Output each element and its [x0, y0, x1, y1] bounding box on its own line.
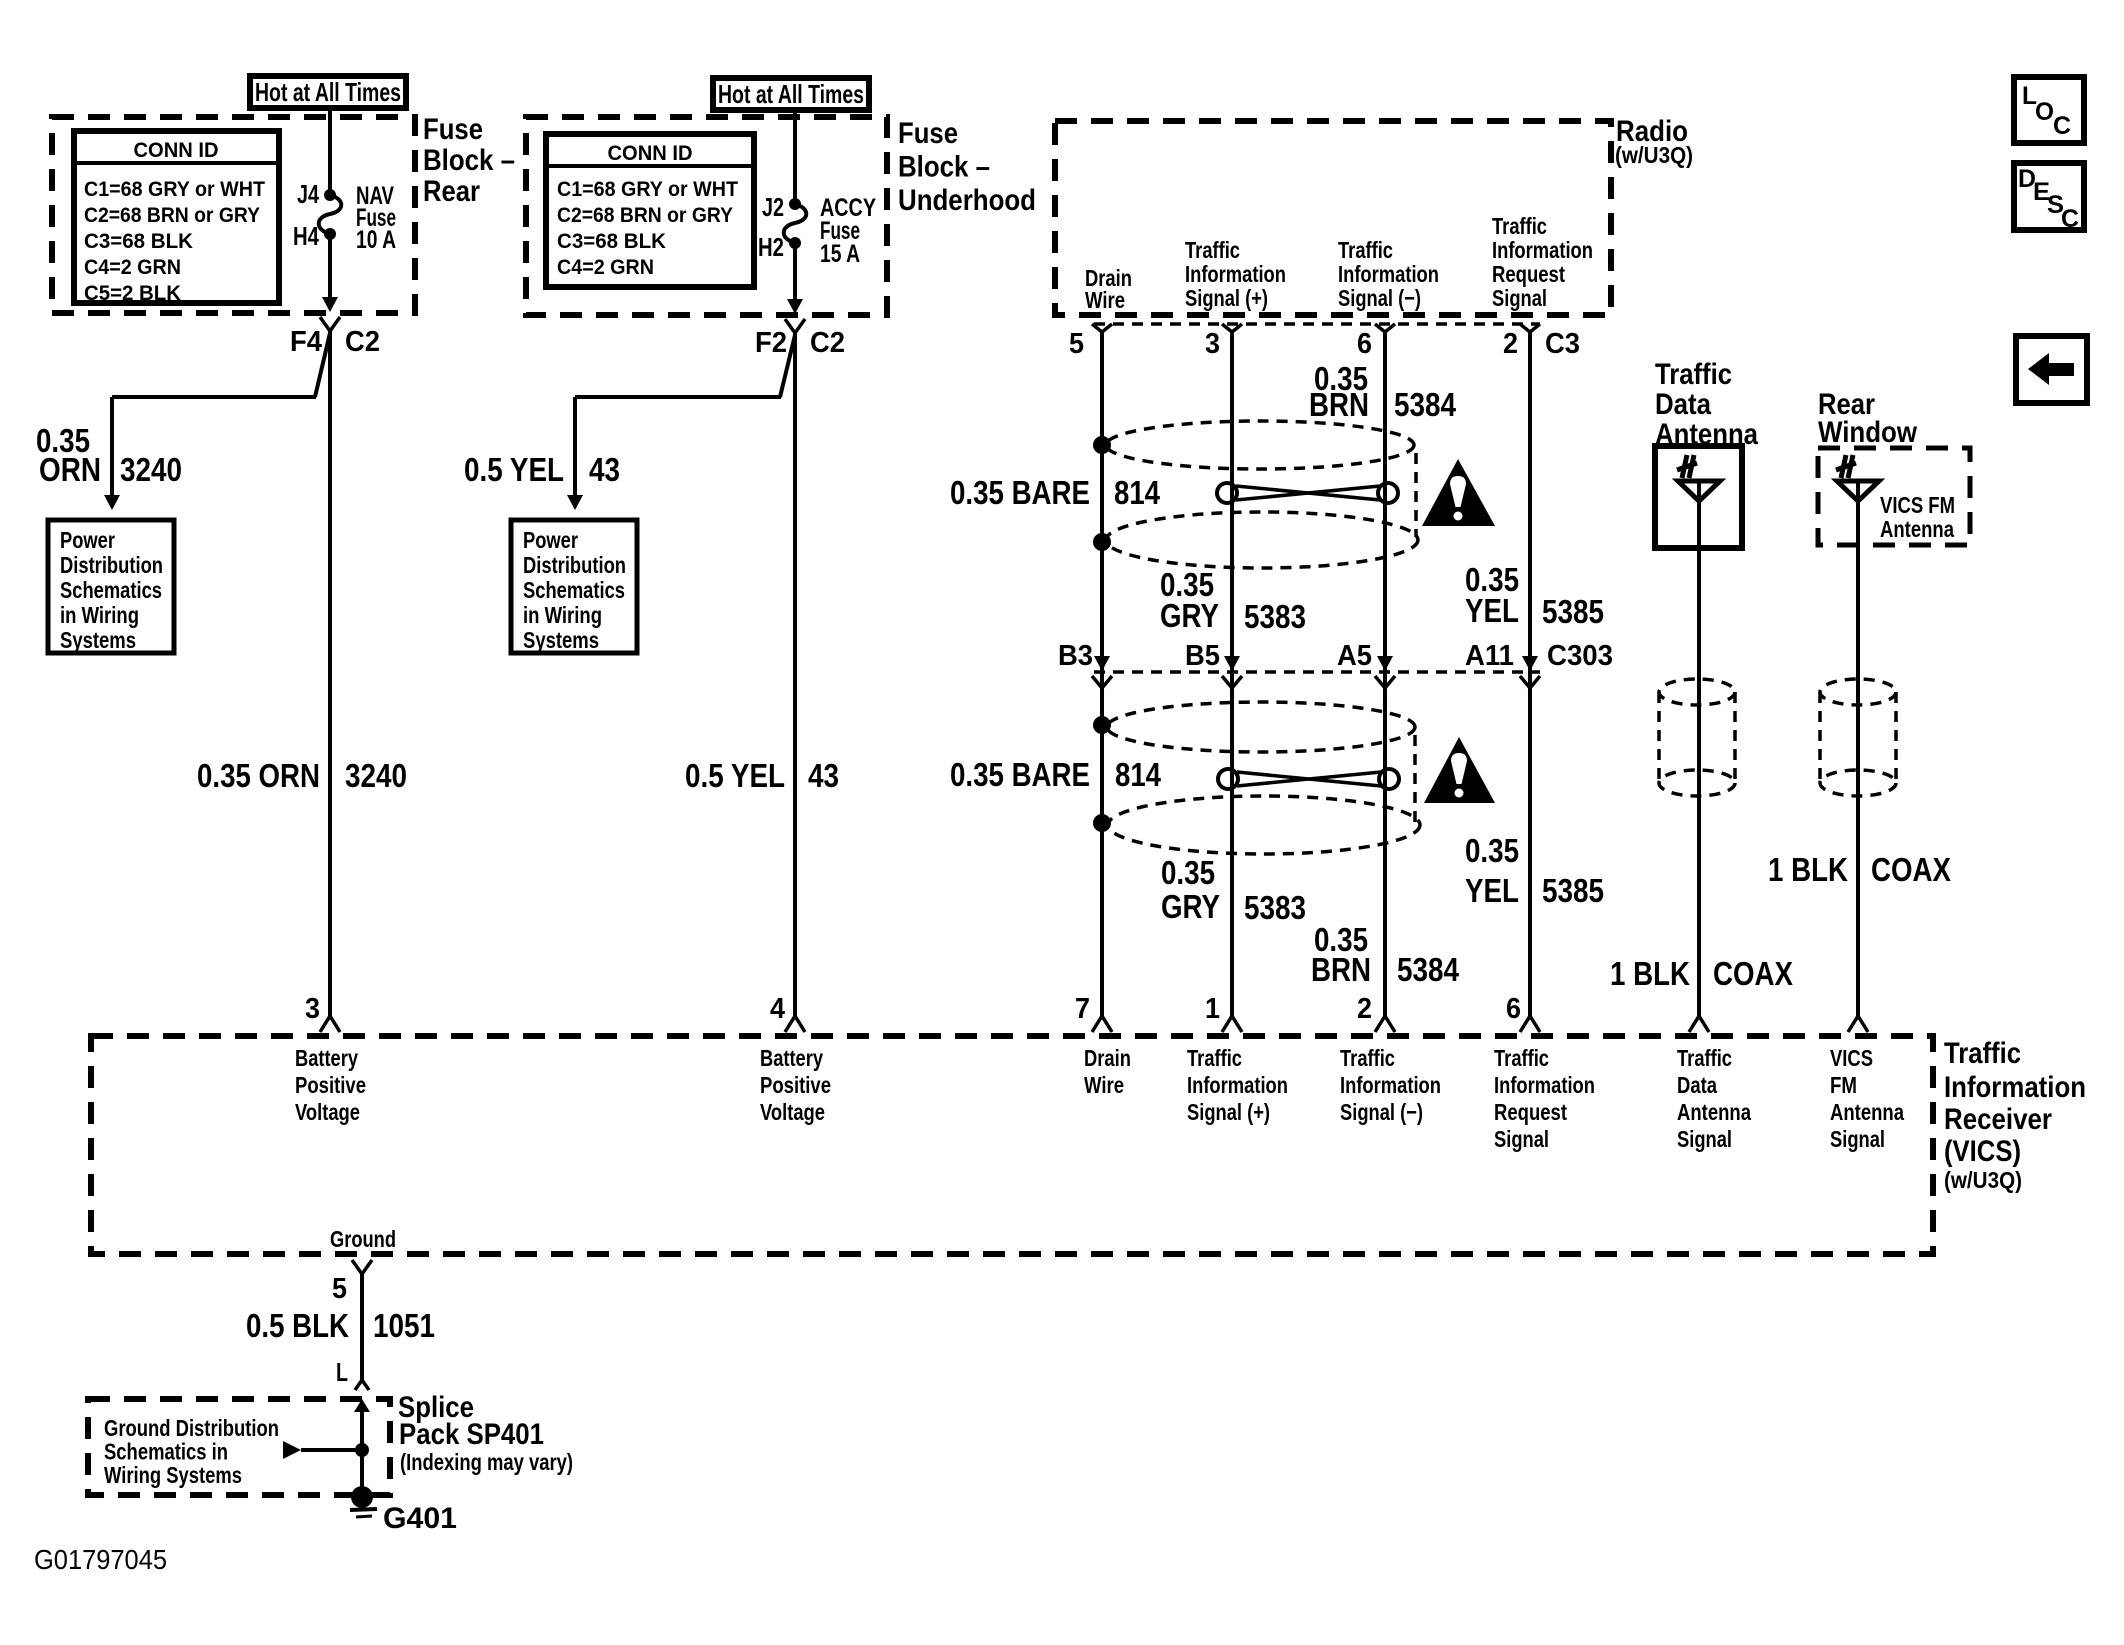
- svg-text:C3=68 BLK: C3=68 BLK: [557, 230, 666, 253]
- svg-text:1 BLK: 1 BLK: [1610, 955, 1690, 992]
- svg-text:3: 3: [305, 993, 320, 1025]
- radio pin 2 cup: [1520, 324, 1540, 332]
- svg-text:(w/U3Q): (w/U3Q): [1944, 1167, 2022, 1193]
- svg-text:Signal: Signal: [1492, 285, 1547, 311]
- svg-text:Underhood: Underhood: [898, 184, 1036, 217]
- svg-text:5384: 5384: [1394, 386, 1457, 423]
- svg-text:Traffic: Traffic: [1494, 1045, 1549, 1071]
- VICS FM antenna symbol: [1837, 481, 1879, 501]
- twisted pair shield junction dot (lower left bottom): [1093, 814, 1111, 832]
- inline connector (VICS FM antenna wire): [1820, 679, 1896, 705]
- svg-text:Positive: Positive: [760, 1072, 831, 1098]
- ground G401 symbol: [351, 1486, 373, 1508]
- wire from fuse H2 to connector F2: [793, 243, 797, 300]
- svg-text:Voltage: Voltage: [760, 1099, 825, 1125]
- svg-text:Ground: Ground: [330, 1226, 396, 1252]
- fuse block underhood dashed box: [526, 117, 887, 315]
- svg-text:0.35 BARE: 0.35 BARE: [950, 474, 1090, 511]
- twisted pair 1 shield side: [1414, 453, 1418, 537]
- svg-text:Distribution: Distribution: [523, 552, 626, 578]
- svg-text:ORN: ORN: [39, 451, 101, 488]
- svg-text:G401: G401: [383, 1502, 457, 1535]
- fuse block rear dashed box: [52, 117, 415, 313]
- connector L cup: [355, 1380, 369, 1390]
- svg-text:6: 6: [1506, 993, 1521, 1025]
- svg-text:Traffic: Traffic: [1655, 358, 1732, 391]
- svg-text:814: 814: [1115, 756, 1162, 793]
- twisted pair shield junction dot (upper left top): [1093, 436, 1111, 454]
- svg-text:5385: 5385: [1542, 593, 1604, 630]
- rear window dashed box: [1818, 448, 1970, 545]
- svg-text:C: C: [2061, 205, 2079, 233]
- svg-text:C4=2 GRN: C4=2 GRN: [557, 256, 654, 279]
- svg-text:B3: B3: [1058, 640, 1093, 672]
- svg-text:Request: Request: [1494, 1099, 1567, 1125]
- svg-text:Signal (−): Signal (−): [1338, 285, 1421, 311]
- svg-text:H4: H4: [293, 221, 319, 251]
- svg-text:C4=2 GRN: C4=2 GRN: [84, 256, 181, 279]
- wire traffic information signal minus: [1383, 332, 1387, 1016]
- svg-text:in Wiring: in Wiring: [60, 602, 139, 628]
- svg-text:C1=68 GRY or WHT: C1=68 GRY or WHT: [557, 178, 738, 201]
- twisted pair 2 shield lower ellipse: [1108, 796, 1420, 854]
- svg-text:COAX: COAX: [1713, 955, 1793, 992]
- svg-text:1051: 1051: [373, 1307, 435, 1344]
- svg-text:7: 7: [1075, 993, 1090, 1025]
- svg-text:C1=68 GRY or WHT: C1=68 GRY or WHT: [84, 178, 265, 201]
- svg-text:Block –: Block –: [898, 151, 990, 184]
- wire drain (radio 5 to receiver 7): [1100, 332, 1104, 1016]
- svg-text:1 BLK: 1 BLK: [1768, 851, 1848, 888]
- wire 0.5 BLK from ground pin to splice: [360, 1274, 364, 1380]
- receiver pin 1 cup: [1222, 1016, 1242, 1032]
- svg-text:F4: F4: [290, 326, 322, 358]
- svg-text:Schematics: Schematics: [523, 577, 625, 603]
- svg-text:Wiring Systems: Wiring Systems: [104, 1462, 242, 1488]
- svg-text:Traffic: Traffic: [1340, 1045, 1395, 1071]
- svg-text:B5: B5: [1185, 640, 1220, 672]
- svg-text:Signal (−): Signal (−): [1340, 1099, 1423, 1125]
- svg-text:0.5 YEL: 0.5 YEL: [685, 757, 785, 794]
- svg-text:Data: Data: [1655, 388, 1711, 421]
- svg-text:GRY: GRY: [1161, 888, 1220, 925]
- svg-text:C303: C303: [1547, 640, 1613, 672]
- svg-text:Schematics in: Schematics in: [104, 1439, 228, 1465]
- wire traffic data antenna coax: [1697, 497, 1701, 1016]
- twisted pair 2 twist symbol: [1218, 769, 1238, 789]
- svg-text:0.35 BARE: 0.35 BARE: [950, 756, 1090, 793]
- svg-text:Signal: Signal: [1677, 1126, 1732, 1152]
- svg-text:Window: Window: [1818, 416, 1918, 449]
- svg-text:10 A: 10 A: [356, 226, 396, 254]
- warning triangle 2: [1424, 737, 1495, 803]
- receiver ground pin cup: [352, 1260, 372, 1274]
- svg-text:BRN: BRN: [1309, 386, 1369, 423]
- svg-text:Antenna: Antenna: [1880, 516, 1954, 542]
- svg-text:C2=68 BRN or GRY: C2=68 BRN or GRY: [84, 204, 260, 227]
- svg-text:Traffic: Traffic: [1187, 1045, 1242, 1071]
- svg-text:Signal (+): Signal (+): [1187, 1099, 1270, 1125]
- svg-text:FM: FM: [1830, 1072, 1857, 1098]
- svg-text:Battery: Battery: [760, 1045, 823, 1071]
- svg-text:Traffic: Traffic: [1492, 213, 1547, 239]
- svg-text:COAX: COAX: [1871, 851, 1951, 888]
- wire branch to power distribution (left): [315, 333, 330, 397]
- traffic data antenna box: [1655, 446, 1742, 548]
- svg-text:C3=68 BLK: C3=68 BLK: [84, 230, 193, 253]
- svg-text:Information: Information: [1340, 1072, 1441, 1098]
- splice pack entry arrow: [354, 1399, 370, 1412]
- svg-text:Receiver: Receiver: [1944, 1103, 2052, 1136]
- svg-text:Power: Power: [60, 527, 115, 553]
- svg-text:CONN ID: CONN ID: [608, 142, 693, 165]
- svg-text:Hot at All Times: Hot at All Times: [255, 77, 401, 107]
- svg-text:Positive: Positive: [295, 1072, 366, 1098]
- svg-text:Wire: Wire: [1085, 287, 1125, 313]
- svg-text:Systems: Systems: [523, 627, 599, 653]
- inline connector C303 dashed line: [1094, 670, 1540, 674]
- svg-text:6: 6: [1357, 328, 1372, 360]
- svg-text:0.35: 0.35: [1161, 854, 1215, 891]
- svg-text:Wire: Wire: [1084, 1072, 1124, 1098]
- svg-text:Voltage: Voltage: [295, 1099, 360, 1125]
- wire from fuse H4 to connector F4: [328, 234, 332, 298]
- svg-text:YEL: YEL: [1465, 872, 1519, 909]
- svg-text:Request: Request: [1492, 261, 1565, 287]
- svg-text:Traffic: Traffic: [1185, 237, 1240, 263]
- receiver pin 6 cup: [1520, 1016, 1540, 1032]
- wire 0.35 ORN from F4 to receiver pin 3: [328, 331, 332, 1016]
- svg-text:Signal (+): Signal (+): [1185, 285, 1268, 311]
- svg-text:J2: J2: [762, 192, 784, 222]
- svg-text:C: C: [2053, 112, 2071, 140]
- twisted pair 1 shield lower ellipse: [1106, 512, 1418, 568]
- svg-text:CONN ID: CONN ID: [134, 139, 219, 162]
- inline connector (traffic data antenna wire): [1659, 679, 1735, 705]
- svg-text:C5=2 BLK: C5=2 BLK: [84, 282, 181, 305]
- receiver traffic data antenna cup: [1689, 1016, 1709, 1032]
- svg-text:15 A: 15 A: [820, 240, 860, 268]
- svg-text:Block –: Block –: [423, 144, 515, 177]
- twisted pair 1 twist symbol: [1217, 483, 1237, 503]
- connector F2/C2 cup: [785, 319, 805, 333]
- svg-text:L: L: [336, 1357, 348, 1387]
- connector A5 arrow and cup: [1377, 656, 1393, 671]
- connector ID table (fuse block underhood): [546, 134, 754, 287]
- svg-text:G01797045: G01797045: [34, 1544, 167, 1575]
- radio pin 3 cup: [1222, 324, 1242, 332]
- receiver pin 7 cup: [1092, 1016, 1112, 1032]
- wire from hot-at-all-times to fuse NAV: [328, 110, 332, 192]
- radio pin 5 cup: [1092, 324, 1112, 332]
- traffic data antenna symbol: [1678, 481, 1720, 501]
- svg-text:Traffic: Traffic: [1944, 1037, 2021, 1070]
- receiver pin 3 cup: [320, 1016, 340, 1032]
- svg-text:Power: Power: [523, 527, 578, 553]
- back arrow box: [2016, 336, 2087, 403]
- svg-text:C2: C2: [810, 327, 845, 359]
- svg-text:(w/U3Q): (w/U3Q): [1615, 142, 1693, 168]
- svg-text:Pack SP401: Pack SP401: [399, 1418, 544, 1451]
- wire splice to ground: [360, 1450, 364, 1492]
- svg-text:43: 43: [589, 451, 620, 488]
- twisted pair 1 shield upper ellipse: [1106, 421, 1414, 469]
- connector B3 arrow and cup: [1094, 656, 1110, 671]
- svg-text:A11: A11: [1465, 640, 1514, 672]
- connector ID table (fuse block rear): [74, 131, 279, 303]
- svg-text:VICS FM: VICS FM: [1880, 492, 1955, 518]
- DESC legend box: [2014, 163, 2084, 230]
- svg-text:C3: C3: [1545, 328, 1580, 360]
- svg-text:0.35: 0.35: [1465, 832, 1519, 869]
- radio dashed box: [1055, 121, 1611, 315]
- wire VICS FM antenna coax: [1856, 497, 1860, 1016]
- svg-text:Fuse: Fuse: [898, 117, 958, 150]
- fuse F1 NAV 10A symbol: [324, 189, 336, 201]
- svg-text:BRN: BRN: [1311, 951, 1371, 988]
- traffic information receiver dashed box: [91, 1036, 1933, 1254]
- wire branch to power distribution (right): [780, 335, 795, 397]
- svg-text:4: 4: [770, 993, 785, 1025]
- svg-text:Information: Information: [1338, 261, 1439, 287]
- svg-text:814: 814: [1114, 474, 1161, 511]
- svg-text:(VICS): (VICS): [1944, 1135, 2021, 1168]
- svg-text:Signal: Signal: [1494, 1126, 1549, 1152]
- svg-text:VICS: VICS: [1830, 1045, 1873, 1071]
- svg-text:J4: J4: [297, 179, 319, 209]
- connector F4/C2 cup: [320, 317, 340, 331]
- svg-text:GRY: GRY: [1160, 597, 1219, 634]
- wire traffic information request signal: [1528, 332, 1532, 1016]
- svg-text:F2: F2: [755, 327, 787, 359]
- twisted pair shield junction dot (lower left top): [1093, 716, 1111, 734]
- svg-text:YEL: YEL: [1465, 592, 1519, 629]
- svg-text:Ground Distribution: Ground Distribution: [104, 1415, 279, 1441]
- hot-at-all-times label box (left): [250, 76, 406, 108]
- svg-text:C2: C2: [345, 326, 380, 358]
- wire 0.5 YEL from F2 to receiver pin 4: [793, 333, 797, 1016]
- fuse F2 ACCY 15A symbol: [789, 198, 801, 210]
- svg-text:Signal: Signal: [1830, 1126, 1885, 1152]
- warning triangle 1: [1422, 459, 1495, 526]
- svg-text:3240: 3240: [345, 757, 407, 794]
- svg-text:5: 5: [332, 1273, 347, 1305]
- svg-text:Information: Information: [1494, 1072, 1595, 1098]
- svg-text:O: O: [2035, 98, 2054, 126]
- svg-text:3: 3: [1205, 328, 1220, 360]
- svg-text:Traffic: Traffic: [1338, 237, 1393, 263]
- twisted pair 2 shield side: [1413, 735, 1417, 822]
- power distribution schematics box (right): [511, 520, 637, 653]
- svg-text:Antenna: Antenna: [1677, 1099, 1751, 1125]
- svg-text:0.5 BLK: 0.5 BLK: [246, 1307, 349, 1344]
- connector B5 arrow and cup: [1224, 656, 1240, 671]
- svg-text:Information: Information: [1187, 1072, 1288, 1098]
- ground distribution reference arrow: [283, 1441, 301, 1459]
- svg-text:Schematics: Schematics: [60, 577, 162, 603]
- receiver VICS FM antenna cup: [1848, 1016, 1868, 1032]
- svg-text:5385: 5385: [1542, 872, 1604, 909]
- svg-text:5383: 5383: [1244, 598, 1306, 635]
- svg-text:Traffic: Traffic: [1677, 1045, 1732, 1071]
- twisted pair 2 shield upper ellipse: [1107, 702, 1415, 752]
- svg-text:Distribution: Distribution: [60, 552, 163, 578]
- svg-text:Data: Data: [1677, 1072, 1717, 1098]
- connector A11 arrow and cup: [1522, 656, 1538, 671]
- svg-text:Systems: Systems: [60, 627, 136, 653]
- LOC legend box: [2014, 77, 2084, 143]
- svg-text:2: 2: [1503, 328, 1518, 360]
- svg-text:A5: A5: [1337, 640, 1372, 672]
- splice junction dot: [355, 1443, 369, 1457]
- svg-text:Drain: Drain: [1084, 1045, 1131, 1071]
- svg-text:Hot at All Times: Hot at All Times: [718, 79, 864, 109]
- svg-text:0.35 ORN: 0.35 ORN: [197, 757, 320, 794]
- svg-text:Information: Information: [1185, 261, 1286, 287]
- receiver pin 4 cup: [785, 1016, 805, 1032]
- svg-text:Information: Information: [1944, 1071, 2086, 1104]
- svg-text:5383: 5383: [1244, 889, 1306, 926]
- radio connector C3 dashed line: [1094, 322, 1540, 326]
- svg-text:1: 1: [1205, 993, 1220, 1025]
- svg-text:43: 43: [808, 757, 839, 794]
- twisted pair shield junction dot (upper left bottom): [1093, 533, 1111, 551]
- svg-text:5384: 5384: [1397, 951, 1460, 988]
- svg-text:H2: H2: [758, 232, 784, 262]
- radio pin 6 cup: [1375, 324, 1395, 332]
- svg-text:5: 5: [1069, 328, 1084, 360]
- svg-text:in Wiring: in Wiring: [523, 602, 602, 628]
- power distribution schematics box (left): [48, 520, 174, 653]
- ground distribution dashed box: [88, 1399, 390, 1495]
- receiver pin 2 cup: [1375, 1016, 1395, 1032]
- wire from hot-at-all-times to fuse ACCY: [793, 112, 797, 201]
- svg-text:C2=68 BRN or GRY: C2=68 BRN or GRY: [557, 204, 733, 227]
- svg-text:(Indexing may vary): (Indexing may vary): [400, 1449, 573, 1475]
- svg-text:Fuse: Fuse: [423, 113, 483, 146]
- hot-at-all-times label box (right): [713, 78, 869, 110]
- svg-text:0.5 YEL: 0.5 YEL: [464, 451, 564, 488]
- svg-text:2: 2: [1357, 993, 1372, 1025]
- svg-text:Rear: Rear: [423, 175, 480, 208]
- svg-text:Antenna: Antenna: [1830, 1099, 1904, 1125]
- svg-text:3240: 3240: [120, 451, 182, 488]
- svg-text:Battery: Battery: [295, 1045, 358, 1071]
- svg-text:Information: Information: [1492, 237, 1593, 263]
- wire traffic information signal plus: [1230, 332, 1234, 1016]
